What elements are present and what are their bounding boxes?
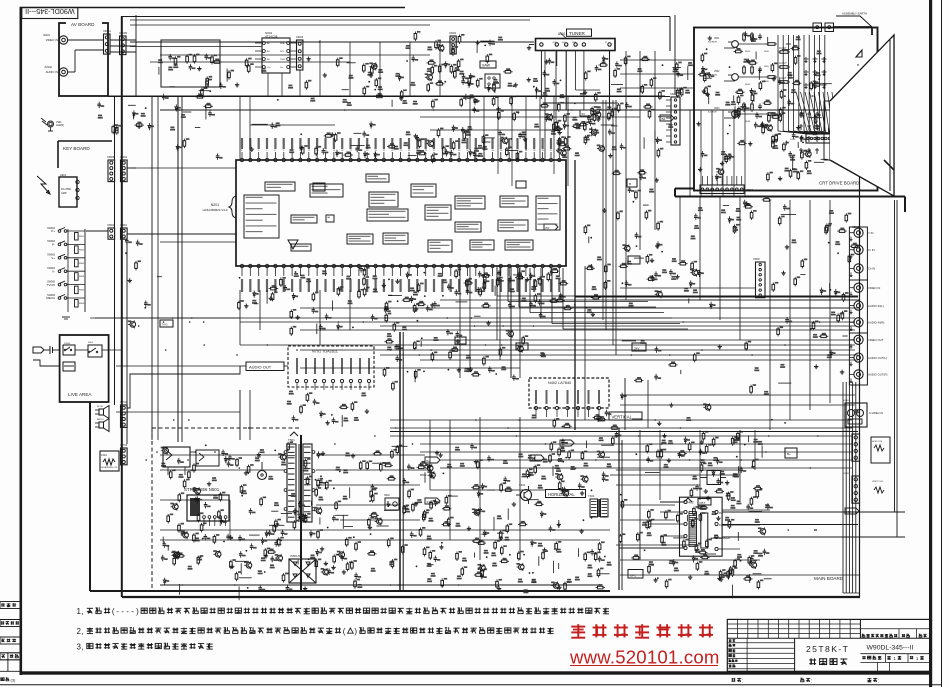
CRT board fan wires — [703, 176, 742, 185]
note line 2 — [77, 627, 554, 636]
svg-text:FBT: FBT — [700, 501, 706, 505]
component cluster crt more — [701, 36, 828, 181]
svg-text:DEGAUSSING COIL: DEGAUSSING COIL — [101, 466, 118, 469]
enclosure right edge — [669, 17, 671, 52]
left bus extension — [115, 228, 128, 444]
title block — [727, 619, 930, 671]
vert drop flyback — [700, 430, 755, 500]
svg-text:W201: W201 — [43, 33, 50, 37]
svg-text:9V: 9V — [719, 511, 722, 515]
CRT board bottom connector — [700, 185, 754, 194]
svg-text:DPC: DPC — [630, 573, 637, 577]
hot area thick boundary — [60, 402, 610, 591]
component cluster far right bottom — [696, 458, 754, 580]
svg-text:B+: B+ — [787, 452, 791, 456]
connector XZ651 — [866, 140, 887, 171]
svg-text:P-: P- — [52, 243, 55, 247]
svg-text:RC-PRE: RC-PRE — [61, 187, 71, 191]
component cluster CRT neck — [828, 104, 844, 145]
svg-text:5V: 5V — [582, 112, 586, 116]
power IC STR-G9656 N501 — [184, 487, 229, 526]
svg-text:L601: L601 — [101, 453, 107, 457]
svg-text:Cr IN: Cr IN — [868, 248, 875, 252]
AUDIO OUT label — [246, 362, 284, 371]
component cluster above N201 — [252, 124, 571, 159]
audio-power divider double vertical — [400, 332, 403, 591]
S-VIDEO connector — [843, 400, 883, 427]
jack group boxes — [849, 227, 867, 385]
connector XZ904 — [107, 224, 115, 239]
svg-text:LED(R): LED(R) — [56, 124, 64, 127]
svg-text:P2: P2 — [457, 340, 461, 344]
flyback transformer T402 — [680, 470, 730, 557]
small boxed label TV-G — [160, 320, 173, 327]
RCA jack column — [850, 226, 888, 383]
LED V901 — [41, 118, 64, 131]
misc boxed labels — [313, 61, 859, 578]
svg-text:B+: B+ — [427, 459, 431, 463]
svg-text:R901: R901 — [79, 236, 85, 238]
svg-text:A901: A901 — [60, 173, 67, 177]
svg-text:SDA: SDA — [572, 41, 577, 44]
socket fan wires — [796, 92, 837, 134]
svg-text:(3): (3) — [11, 678, 17, 683]
main board top line — [108, 95, 665, 97]
svg-text:R615: R615 — [745, 51, 751, 53]
svg-text:,: , — [82, 607, 84, 616]
main bus vertical 2 — [114, 96, 116, 228]
svg-text:P+: P+ — [51, 229, 55, 233]
N201 pin escape corners — [497, 268, 688, 329]
connector XZ252 — [666, 93, 680, 145]
svg-text:TEST: TEST — [280, 59, 286, 61]
svg-text:R-DRIVE: R-DRIVE — [708, 42, 718, 44]
vertical x511 — [497, 266, 511, 378]
cluster bottom mid — [456, 540, 610, 594]
B+ arrows — [420, 457, 440, 504]
svg-text:XZ60: XZ60 — [790, 139, 796, 141]
earth wire thick — [675, 189, 905, 213]
tuner wires — [541, 51, 615, 111]
page border left — [20, 7, 23, 675]
component cluster video/chroma — [342, 56, 483, 109]
svg-text:HA61366B23 V4.0: HA61366B23 V4.0 — [203, 208, 228, 212]
svg-text:www.520101.com: www.520101.com — [569, 647, 720, 668]
connector XZ702 — [120, 401, 128, 427]
HOR coil connector — [843, 431, 890, 463]
svg-text:XZ905: XZ905 — [107, 156, 115, 159]
svg-text:XZ601: XZ601 — [64, 343, 71, 345]
bottom strip label 制图 — [731, 678, 743, 685]
svg-text:TUNER: TUNER — [569, 31, 586, 36]
component cluster power more — [161, 444, 305, 581]
CRT picture tube — [824, 35, 894, 196]
power area extra wires — [160, 455, 430, 540]
connector XZ01A — [103, 29, 111, 54]
svg-text:BR701: BR701 — [97, 419, 104, 421]
component cluster below n201 more — [239, 266, 559, 308]
mid thick horizontal y300 — [575, 296, 858, 298]
svg-text:TV/AV: TV/AV — [47, 283, 55, 287]
spark gaps — [804, 57, 827, 89]
svg-text:V602: V602 — [714, 71, 720, 73]
svg-text:(: ( — [343, 627, 346, 636]
svg-text:AUDIO OUT: AUDIO OUT — [249, 364, 272, 369]
connector XZ002 — [449, 32, 457, 54]
cluster left of N201 — [128, 103, 223, 160]
note line 3 — [77, 643, 213, 652]
EEPROM N901 AT24C08 — [255, 31, 296, 73]
component cluster vertical out — [528, 410, 620, 476]
svg-text:STR-G9656 N501: STR-G9656 N501 — [184, 487, 220, 492]
LIVE AREA box — [60, 335, 109, 402]
horiz out extra wires — [616, 470, 770, 545]
svg-text::: : — [742, 679, 743, 685]
connector XZ902 — [120, 156, 128, 182]
svg-text:KEY BOARD: KEY BOARD — [63, 146, 90, 151]
svg-text:R902: R902 — [79, 249, 85, 251]
speakers BL701/BR701 — [95, 406, 109, 432]
component cluster under band — [290, 300, 453, 341]
right side long verticals — [895, 200, 906, 537]
IC N201 HA61366B23 with pins — [203, 152, 566, 276]
svg-text:MENU: MENU — [46, 296, 55, 300]
svg-text:Cb IN: Cb IN — [868, 267, 875, 271]
svg-text:TV-G: TV-G — [162, 323, 168, 327]
svg-text::: : — [878, 679, 879, 685]
svg-text:-: - — [126, 607, 129, 616]
svg-text:N201: N201 — [211, 203, 220, 207]
page border bottom thick — [20, 671, 932, 674]
svg-text:,: , — [82, 627, 84, 636]
MAIN BOARD outline — [122, 93, 860, 597]
svg-text:AUDIO IN(L): AUDIO IN(L) — [868, 304, 884, 308]
svg-text:VERTICAL: VERTICAL — [612, 414, 633, 419]
IR lightning arrow — [37, 176, 50, 194]
component cluster mid band2 — [384, 297, 595, 362]
driver transformer T401 — [588, 494, 608, 517]
svg-text:AUDIO OUT(L): AUDIO OUT(L) — [868, 356, 887, 360]
svg-text:AV BOARD: AV BOARD — [71, 22, 95, 27]
svg-text:XZ9W: XZ9W — [753, 258, 760, 261]
CRT socket connector XZ601 — [790, 134, 838, 143]
KEY BOARD + IR receiver A901 — [58, 141, 112, 207]
svg-text:25T8K-T: 25T8K-T — [806, 644, 849, 654]
component cluster secondary more — [429, 445, 614, 589]
wire key to main — [86, 168, 160, 234]
extra long verticals — [240, 15, 675, 160]
svg-text:R904: R904 — [79, 276, 85, 278]
HORIZONTAL label — [546, 490, 586, 498]
svg-text:Y IN: Y IN — [868, 231, 873, 235]
svg-text:HOR COIL: HOR COIL — [872, 441, 883, 443]
AC plug — [33, 346, 60, 366]
switching transformer T501 — [284, 432, 315, 522]
svg-text:CRT DRIVE BOARD: CRT DRIVE BOARD — [819, 181, 859, 186]
tuner A101 — [527, 29, 615, 51]
connector XZ003 — [296, 36, 304, 70]
top-left subcircuit box — [161, 40, 220, 87]
focus screen lines — [718, 512, 905, 549]
left mid wires — [90, 318, 240, 366]
svg-text:W90DL-345---II: W90DL-345---II — [867, 645, 914, 652]
svg-text:XZ904: XZ904 — [107, 224, 115, 227]
svg-text:B2: B2 — [662, 117, 666, 121]
svg-text:B1: B1 — [546, 226, 550, 230]
note line 1 — [77, 607, 610, 616]
svg-text:V432: V432 — [519, 483, 526, 487]
doc number box (rotated) — [22, 7, 78, 18]
cluster right of N201 — [584, 169, 663, 260]
bottom strip label 编图 — [867, 678, 879, 685]
svg-text:S-VIDEO IN: S-VIDEO IN — [869, 411, 883, 415]
svg-text:LIVE AREA: LIVE AREA — [68, 392, 92, 397]
AC dashed boundary — [152, 428, 301, 591]
component cluster right col — [772, 204, 859, 358]
watermark url — [569, 647, 720, 668]
svg-text:VD501-504: VD501-504 — [290, 555, 303, 558]
component cluster horiz deflection — [615, 431, 773, 598]
svg-text:T401: T401 — [588, 494, 595, 498]
component cluster CRT board inner — [698, 31, 832, 180]
svg-text:-: - — [131, 607, 134, 616]
svg-text:AUDIO IN: AUDIO IN — [46, 70, 58, 74]
component cluster top-left IF — [158, 54, 239, 101]
vertical drops mid — [470, 96, 568, 186]
cluster power more3 — [163, 450, 600, 588]
N201 right side blocks — [428, 196, 560, 252]
big filter cap C507 — [255, 455, 267, 480]
component cluster SAW area — [487, 68, 538, 106]
svg-text:XZ01A: XZ01A — [103, 29, 111, 33]
svg-text:AT24C08: AT24C08 — [265, 35, 278, 39]
left margin boxes lower — [0, 602, 20, 672]
svg-text:W90DL-345---II: W90DL-345---II — [25, 7, 75, 16]
CRT DRIVE BOARD outline — [694, 28, 878, 191]
svg-text:N402 LA7840: N402 LA7840 — [548, 381, 571, 385]
watermark 家电维修资料网 — [571, 624, 713, 638]
svg-text:AMP: AMP — [61, 191, 67, 195]
main top line boost — [108, 96, 670, 98]
connector XZ21B — [119, 31, 127, 55]
CRT funnel redraw — [799, 35, 894, 196]
wires audio — [116, 366, 288, 412]
svg-text:C507: C507 — [255, 455, 262, 459]
svg-text:-: - — [116, 607, 119, 616]
small boxed label P2 — [455, 337, 466, 344]
svg-text:-: - — [121, 607, 124, 616]
optocoupler N502 — [384, 494, 399, 510]
component cluster power right more — [310, 446, 432, 582]
N201 pin labels — [241, 138, 562, 292]
svg-text:V601: V601 — [714, 38, 720, 40]
isolation boundary thick — [300, 435, 302, 591]
audio amp N701 TDA2611 — [288, 346, 374, 390]
svg-text:B: B — [857, 63, 859, 67]
cluster right mid2 — [621, 340, 859, 426]
cluster audio right — [384, 338, 461, 391]
svg-text:SAW: SAW — [482, 64, 491, 68]
CRT drive resistors — [764, 47, 790, 83]
svg-text:R625: R625 — [745, 84, 751, 86]
svg-text:24V: 24V — [634, 347, 639, 351]
svg-text:): ) — [136, 607, 139, 616]
component cluster left sparse — [97, 102, 153, 135]
component cluster center video — [625, 258, 716, 309]
cluster mid band3 — [383, 331, 519, 382]
svg-text:,: , — [82, 643, 84, 652]
right small connector — [753, 258, 765, 298]
connector XZ706 — [120, 444, 128, 465]
svg-text:XZ003: XZ003 — [296, 36, 304, 39]
right edge wire bundle — [843, 382, 856, 593]
component cluster above n201 more — [250, 121, 567, 163]
svg-text:): ) — [354, 627, 357, 636]
page bottom rule — [0, 684, 941, 686]
deflection thick horizontal — [390, 431, 858, 433]
svg-text:N502: N502 — [384, 494, 390, 497]
component cluster below CRT board — [694, 196, 851, 234]
svg-text:XZ660: XZ660 — [746, 189, 754, 192]
VERTICAL label — [609, 412, 642, 420]
svg-text:VIDEO IN: VIDEO IN — [46, 38, 58, 42]
HOT transistor V432 — [516, 483, 532, 504]
component cluster power secondary — [456, 443, 612, 591]
svg-text:B-DRIVE: B-DRIVE — [708, 112, 717, 114]
svg-text:HORIZONTAL: HORIZONTAL — [548, 492, 575, 497]
svg-text:VIDEO IN: VIDEO IN — [868, 286, 880, 290]
svg-text:VERT COIL: VERT COIL — [872, 481, 884, 483]
CRT video output amps V601-603 — [708, 32, 777, 123]
component cluster mid right sparse — [585, 235, 704, 299]
component cluster horiz more — [619, 431, 769, 582]
VERT coil connector — [843, 473, 884, 503]
svg-text:(: ( — [112, 607, 115, 616]
AV BOARD — [43, 21, 108, 97]
page border right thin — [941, 0, 943, 687]
cluster crt more2 — [696, 47, 821, 182]
enclosure top edge — [121, 16, 670, 18]
svg-text:+33V: +33V — [552, 42, 557, 44]
right bundle horiz join — [843, 592, 860, 594]
degauss coil L601 — [100, 451, 119, 471]
svg-text:R906: R906 — [79, 303, 85, 305]
svg-text:AUDIO OUT(R): AUDIO OUT(R) — [868, 373, 887, 377]
svg-text:HV: HV — [847, 510, 851, 514]
AC line filter boxes — [163, 447, 219, 475]
horiz output vertical pair — [619, 428, 622, 590]
main bus vertical thick — [121, 17, 123, 598]
svg-text:XZ002: XZ002 — [449, 32, 457, 35]
svg-text:BL701: BL701 — [97, 406, 104, 408]
svg-text::: : — [811, 679, 812, 685]
svg-text:R635: R635 — [745, 121, 751, 123]
page border top — [20, 7, 406, 9]
flyback left wires — [619, 502, 684, 548]
svg-text:V-: V- — [52, 269, 55, 273]
component cluster audio out — [287, 391, 369, 427]
cluster top mid more — [245, 57, 475, 107]
vertical drops right — [690, 110, 745, 196]
component cluster power primary — [161, 441, 452, 600]
connector XZ905 — [107, 156, 115, 182]
svg-text:S601: S601 — [88, 342, 94, 344]
svg-text:R905: R905 — [79, 290, 85, 292]
svg-text:XZ102: XZ102 — [44, 65, 52, 69]
key switches SW901-906 — [46, 227, 85, 319]
component cluster right of tuner — [637, 56, 693, 100]
wire grid — [95, 15, 860, 585]
svg-text:R903: R903 — [79, 263, 85, 265]
component cluster right jacks small — [810, 241, 849, 369]
CRT wire fan — [778, 35, 825, 131]
cluster top strip — [406, 31, 503, 64]
component cluster IF mid band — [461, 98, 671, 157]
vertical IC N402 LA7840 — [529, 378, 609, 417]
N201 internal function blocks — [244, 174, 533, 251]
component cluster below N201 — [238, 268, 569, 312]
horiz mid extra — [250, 125, 560, 130]
wires AV to main — [110, 40, 136, 52]
component cluster below tuner — [535, 56, 631, 102]
page border right thick bar — [929, 0, 932, 687]
CRT fan bend — [778, 131, 836, 134]
svg-text:MAIN BOARD: MAIN BOARD — [814, 576, 844, 581]
vertical frame right of N402 — [625, 378, 648, 430]
extra long horizontals — [130, 20, 860, 405]
svg-text:V+: V+ — [51, 256, 55, 260]
op-amp triangle — [288, 240, 298, 249]
connector XZ901 — [120, 224, 128, 239]
svg-text:ASSEMBLY EARTH: ASSEMBLY EARTH — [842, 12, 867, 16]
bottom strip label 描图 — [800, 678, 812, 685]
svg-text:AUDIO IN(R): AUDIO IN(R) — [868, 321, 884, 325]
bridge rectifier — [289, 555, 316, 583]
svg-text:VIDEO OUT: VIDEO OUT — [868, 338, 884, 342]
svg-text:XZ21B: XZ21B — [119, 31, 127, 35]
svg-text:M502: M502 — [420, 473, 427, 477]
svg-text:B: B — [629, 182, 631, 186]
component cluster tuner wires — [540, 102, 614, 144]
left margin note — [1, 677, 16, 682]
component cluster under tuner2 — [562, 102, 673, 158]
component cluster keyboard bus — [125, 238, 162, 329]
assembly earth — [813, 12, 872, 36]
component cluster right bottom — [699, 431, 762, 581]
